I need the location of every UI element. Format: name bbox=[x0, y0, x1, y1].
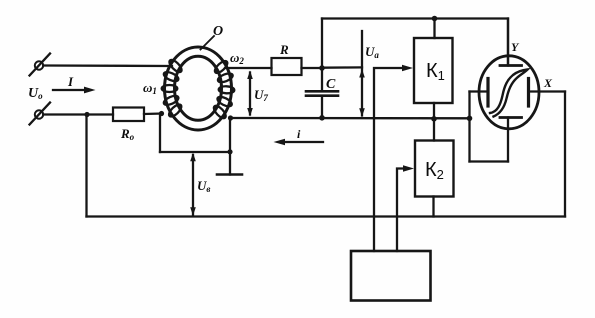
wire K2 top bbox=[433, 119, 435, 141]
svg-text:Ro: Ro bbox=[120, 126, 135, 142]
label w1 bbox=[143, 80, 157, 96]
ground bbox=[217, 173, 242, 176]
svg-text:Uo: Uo bbox=[28, 86, 43, 101]
wire X right down bbox=[564, 92, 566, 217]
wire node up to top rail bbox=[321, 19, 323, 69]
current arrow I bbox=[53, 74, 96, 93]
node R C junction bbox=[319, 65, 325, 71]
wire secondary bottom rail bbox=[230, 117, 470, 120]
input terminal top bbox=[30, 54, 51, 76]
wire generator to K2 bbox=[397, 165, 414, 251]
svg-text:C: C bbox=[326, 77, 336, 92]
svg-text:К2: К2 bbox=[425, 159, 444, 182]
svg-text:Y: Y bbox=[511, 40, 520, 54]
node w2 bottom bbox=[228, 115, 233, 120]
wire w2 top to R bbox=[226, 67, 272, 69]
wire Ua reference tick bbox=[322, 66, 362, 69]
label O with leader bbox=[201, 24, 224, 50]
node w1 bottom bbox=[159, 111, 164, 116]
wire generator to K1 bbox=[374, 65, 413, 251]
block K2 bbox=[415, 141, 454, 197]
svg-text:R: R bbox=[279, 42, 289, 57]
plate Y top bbox=[500, 19, 522, 66]
current arrow i bbox=[274, 127, 324, 145]
wire bottom plate link bbox=[470, 160, 509, 162]
wire w2 bottom to ground bbox=[229, 118, 231, 175]
svg-text:O: O bbox=[213, 24, 223, 39]
capacitor C bbox=[306, 68, 338, 118]
svg-text:К1: К1 bbox=[426, 60, 445, 83]
node ground junction bbox=[227, 149, 232, 154]
wire left plate down bbox=[468, 92, 470, 162]
node top rail K1 bbox=[432, 16, 438, 22]
node C bottom bbox=[319, 115, 325, 121]
plate Y bottom bbox=[500, 118, 522, 162]
node K1 K2 bbox=[431, 116, 437, 122]
top rail bbox=[322, 19, 508, 66]
wire K2 bottom bbox=[432, 197, 434, 217]
voltage arrow UT bbox=[247, 71, 268, 117]
label U0 bbox=[28, 86, 43, 101]
wire R to node bbox=[302, 67, 323, 69]
svg-text:Uв: Uв bbox=[197, 178, 210, 194]
resistor R bbox=[272, 42, 302, 75]
voltage arrow Ub bbox=[190, 153, 210, 216]
node left plate bbox=[467, 116, 473, 122]
input terminal bottom bbox=[30, 103, 51, 125]
voltage arrow Ua bbox=[359, 31, 379, 117]
wire to ground node bbox=[160, 151, 230, 153]
svg-text:i: i bbox=[297, 127, 301, 141]
winding w2 bbox=[212, 59, 235, 120]
label Y bbox=[511, 40, 520, 54]
generator block bbox=[351, 251, 431, 301]
wire w1 bottom down bbox=[159, 114, 161, 153]
wire K1 bottom bbox=[433, 103, 435, 119]
svg-text:Ua: Ua bbox=[365, 44, 379, 60]
label X bbox=[543, 76, 553, 90]
wire bottom input to R0 bbox=[43, 113, 113, 115]
toroidal core O bbox=[165, 47, 232, 130]
bottom rail bbox=[87, 215, 566, 217]
node junction left bbox=[84, 112, 89, 117]
wire K1 top bbox=[433, 19, 435, 39]
resistor R0 bbox=[113, 108, 144, 143]
svg-text:ω2: ω2 bbox=[230, 50, 244, 66]
label w2 bbox=[230, 50, 244, 66]
wire left down bbox=[85, 115, 87, 217]
winding w1 bbox=[162, 58, 184, 118]
wire top input to winding w1 bbox=[43, 64, 172, 67]
svg-text:X: X bbox=[543, 76, 553, 90]
svg-text:U7: U7 bbox=[254, 87, 268, 103]
plate X left bbox=[470, 79, 489, 107]
svg-text:I: I bbox=[67, 74, 74, 89]
block K1 bbox=[414, 38, 453, 103]
wire R0 to winding w1 bottom bbox=[144, 112, 162, 115]
svg-text:ω1: ω1 bbox=[143, 80, 157, 96]
hysteresis curve bbox=[490, 70, 528, 117]
plate X right bbox=[529, 79, 566, 107]
oscilloscope tube bbox=[479, 56, 539, 129]
